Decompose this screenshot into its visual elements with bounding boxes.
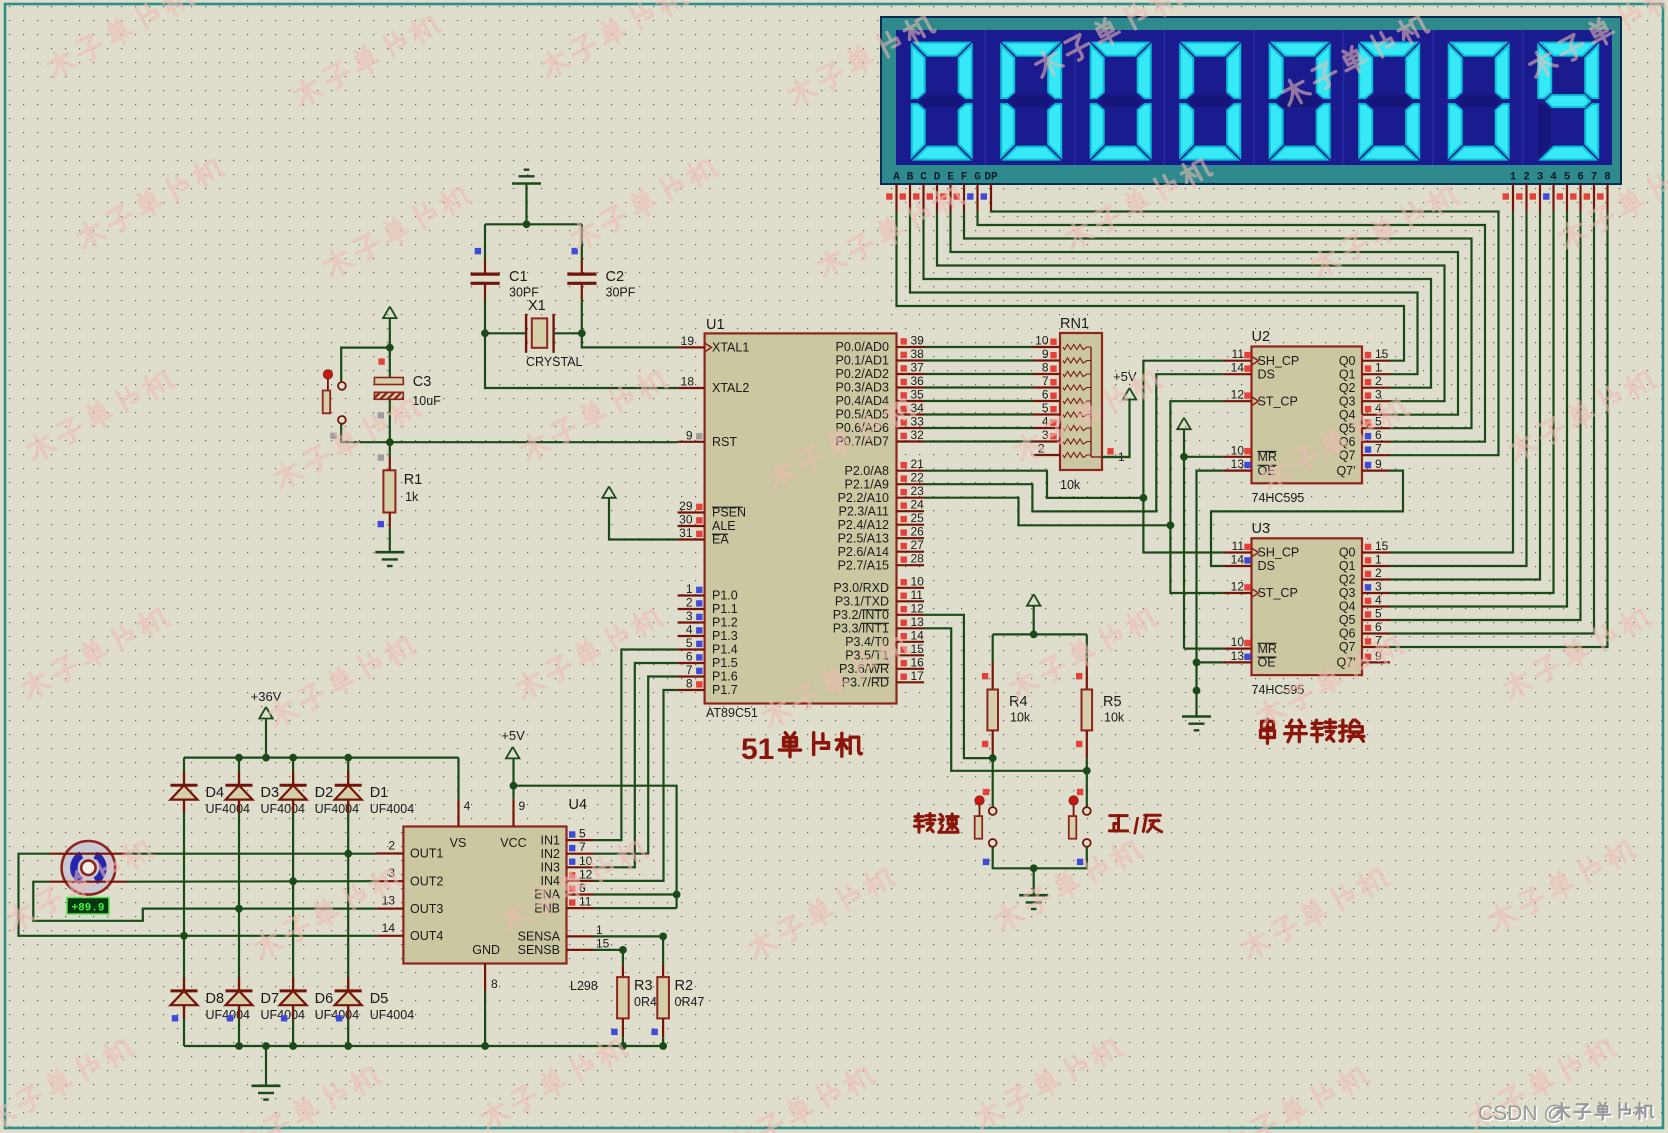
motor M1 [62, 841, 116, 895]
junction node on ground rail [235, 1042, 243, 1050]
svg-text:G: G [974, 172, 981, 184]
power +5V arrow at U2 MR [1177, 418, 1190, 430]
U1 pin 17 P3.7/RD [897, 681, 925, 683]
svg-text:P0.2/AD2: P0.2/AD2 [835, 367, 889, 381]
wire P0.7 to RN1 pin 3 [924, 440, 1033, 442]
svg-text:+5V: +5V [501, 728, 525, 743]
diode D2 UF4004 [292, 771, 294, 785]
svg-text:12: 12 [911, 601, 925, 615]
svg-text:27: 27 [911, 538, 925, 552]
svg-text:17: 17 [911, 669, 925, 683]
svg-text:36: 36 [911, 374, 925, 388]
svg-text:13: 13 [1231, 457, 1245, 471]
display digit 2 showing 0 [1004, 43, 1059, 56]
U1 pin 39 P0.0/AD0 [897, 346, 925, 348]
svg-text:ST_CP: ST_CP [1258, 586, 1298, 600]
svg-text:+89.9: +89.9 [71, 902, 104, 914]
RN1 pin 2 [1033, 454, 1060, 456]
svg-text:12: 12 [1231, 580, 1245, 594]
svg-text:5: 5 [1375, 415, 1382, 429]
svg-text:28: 28 [911, 552, 925, 566]
diode D4 UF4004 [183, 771, 185, 785]
resistor R2 0R47 [662, 964, 664, 977]
svg-text:15: 15 [1375, 347, 1389, 361]
power arrow at EA [602, 486, 615, 498]
svg-text:ALE: ALE [712, 519, 736, 533]
svg-text:A: A [893, 172, 900, 184]
wire segment F net [964, 211, 1472, 428]
U2 pin 2 Q2 [1362, 387, 1390, 389]
svg-text:7: 7 [1591, 172, 1598, 184]
diode D3 UF4004 [238, 771, 240, 785]
svg-text:3: 3 [1375, 388, 1382, 402]
svg-text:SENSA: SENSA [518, 930, 561, 944]
junction node on +36V rail [235, 754, 243, 762]
display segment pins A-DP with state squares [895, 184, 897, 211]
U1 INT0 INT1 WR RD overlines [861, 609, 889, 611]
wire SENSB to R3 [594, 950, 623, 964]
junction node MR net [1180, 453, 1188, 461]
wire X1 left to C1 [485, 332, 526, 334]
svg-text:P1.4: P1.4 [712, 643, 738, 657]
wire P2.0 to shift clock net [924, 471, 1143, 498]
wire SENSA to R2 [594, 936, 664, 964]
svg-text:11: 11 [1232, 347, 1245, 361]
svg-text:6: 6 [1375, 620, 1382, 634]
U4 pin 1 SENSA [567, 935, 594, 937]
ground main rail [252, 1085, 281, 1088]
display digit 5 showing 0 [1272, 43, 1327, 56]
svg-text:14: 14 [911, 628, 925, 642]
U4 pin 15 SENSB [567, 949, 594, 951]
svg-text:13: 13 [1231, 649, 1245, 663]
svg-text:C1: C1 [509, 269, 528, 285]
U4 pin 2 OUT1 [376, 852, 403, 854]
diode D6 UF4004 [292, 977, 294, 991]
svg-text:14: 14 [382, 921, 396, 935]
svg-text:5: 5 [1042, 401, 1049, 415]
U1 PSEN overline [712, 506, 743, 508]
svg-text:XTAL1: XTAL1 [712, 341, 749, 355]
svg-text:P0.4/AD4: P0.4/AD4 [835, 394, 889, 408]
svg-text:P1.0: P1.0 [712, 589, 738, 603]
svg-text:CSDN @: CSDN @ [1478, 1102, 1565, 1125]
wire digit 5 net [1390, 211, 1568, 607]
U2 pin 9 Q7' [1362, 470, 1390, 472]
junction node OE at U3 [1193, 659, 1201, 667]
junction node on +36V rail [289, 754, 297, 762]
U1 pin 6 P1.5 [678, 662, 705, 664]
label 转速 [914, 813, 935, 832]
svg-text:P2.0/A8: P2.0/A8 [845, 464, 890, 478]
svg-text:16: 16 [911, 655, 925, 669]
svg-text:23: 23 [911, 484, 925, 498]
svg-text:P0.1/AD1: P0.1/AD1 [835, 354, 889, 368]
U4 pin 5 IN1 [567, 839, 594, 841]
U1 pin 28 P2.7/A15 [897, 564, 925, 566]
U2 pin 6 Q6 [1362, 441, 1390, 443]
svg-text:15: 15 [596, 936, 610, 950]
wire P0.2 to RN1 pin 8 [924, 373, 1033, 375]
svg-text:5: 5 [1375, 607, 1382, 621]
svg-text:SH_CP: SH_CP [1258, 354, 1300, 368]
svg-text:D7: D7 [261, 991, 280, 1007]
U3 pin 5 Q5 [1362, 619, 1390, 621]
U4 pin 8 GND [484, 964, 486, 991]
resistor R4 [992, 634, 994, 662]
svg-text:D4: D4 [206, 785, 225, 801]
U1 pin 38 P0.1/AD1 [897, 359, 925, 361]
svg-text:P2.6/A14: P2.6/A14 [838, 545, 889, 559]
wire digit 7 net [1390, 211, 1595, 634]
svg-text:P0.0/AD0: P0.0/AD0 [835, 340, 889, 354]
wire motor top to OUT1 [127, 853, 376, 855]
label 串并转换 [1260, 719, 1274, 743]
U1 pin 34 P0.5/AD5 [897, 413, 925, 415]
diode D8 UF4004 [183, 977, 185, 991]
wire P1.7 to IN4 [594, 690, 678, 881]
svg-text:6: 6 [1577, 172, 1584, 184]
svg-text:X1: X1 [528, 298, 546, 314]
junction node cap ground rail [523, 220, 531, 228]
svg-text:Q7': Q7' [1336, 464, 1355, 478]
U1 pin 5 P1.4 [678, 648, 705, 650]
svg-text:4: 4 [686, 623, 693, 637]
push button RESET [341, 348, 390, 383]
svg-text:10: 10 [911, 574, 925, 588]
svg-text:4: 4 [464, 799, 471, 813]
U3 pin 2 Q2 [1362, 578, 1390, 580]
svg-text:IN2: IN2 [541, 847, 561, 861]
svg-text:11: 11 [911, 588, 924, 602]
U2 pin 13 OE [1224, 470, 1252, 472]
svg-text:8: 8 [686, 677, 693, 691]
U4 pin 4 VS [457, 799, 459, 826]
wire segment E net [951, 211, 1459, 415]
U2 pin 3 Q3 [1362, 400, 1390, 402]
svg-text:9: 9 [686, 428, 693, 442]
U4 pin 11 ENB [567, 907, 594, 909]
junction node XTAL1 side [578, 329, 586, 337]
svg-text:D6: D6 [315, 991, 334, 1007]
svg-text:C2: C2 [606, 269, 625, 285]
wire P0.4 to RN1 pin 6 [924, 400, 1033, 402]
wire +5V to RN1 pin 1 [1102, 400, 1130, 458]
svg-text:39: 39 [911, 334, 925, 348]
U3 pin 11 SH_CP [1224, 551, 1252, 553]
wire ST_CP net U2 to U3 [1170, 401, 1223, 593]
wire digit 8 net [1390, 211, 1608, 647]
wire P1.5 to IN3 [594, 663, 678, 867]
svg-text:8: 8 [491, 977, 498, 991]
wire EA pull up [609, 498, 678, 540]
power arrow above R4 R5 [1027, 594, 1040, 606]
svg-text:14: 14 [1231, 553, 1245, 567]
wire P0.1 to RN1 pin 9 [924, 359, 1033, 361]
svg-text:2: 2 [1375, 374, 1382, 388]
U1 pin 21 P2.0/A8 [897, 470, 925, 472]
U1 pin 35 P0.4/AD4 [897, 400, 925, 402]
svg-text:24: 24 [911, 498, 925, 512]
junction node XTAL2 side [481, 329, 489, 337]
svg-text:1: 1 [1375, 553, 1382, 567]
U3 pin 1 Q1 [1362, 565, 1390, 567]
U1 pin 24 P2.3/A11 [897, 510, 925, 512]
ground above crystal caps (inverted) [512, 182, 541, 185]
wire +36V rail [184, 756, 459, 758]
svg-text:21: 21 [911, 457, 925, 471]
svg-text:P3.0/RXD: P3.0/RXD [833, 581, 889, 595]
wire P2.1 to U2 DS [924, 374, 1224, 511]
svg-text:2: 2 [388, 839, 395, 853]
svg-text:6: 6 [1375, 428, 1382, 442]
wire P3.2 to R4 bottom [924, 615, 993, 758]
wire P0.3 to RN1 pin 7 [924, 386, 1033, 388]
svg-text:D1: D1 [370, 785, 389, 801]
svg-text:2: 2 [1523, 172, 1530, 184]
svg-text:10k: 10k [1104, 710, 1125, 724]
display digit 8 showing 9 [1541, 43, 1596, 56]
svg-text:15: 15 [911, 642, 925, 656]
svg-text:9: 9 [519, 799, 526, 813]
junction node RST [386, 438, 394, 446]
svg-text:P2.5/A13: P2.5/A13 [838, 531, 889, 545]
wire R4 R5 top rail [993, 633, 1087, 635]
svg-text:UF4004: UF4004 [261, 802, 306, 816]
RN1 pin 10 [1033, 346, 1060, 348]
svg-text:D3: D3 [261, 785, 280, 801]
U2 pin 10 MR [1224, 456, 1252, 458]
svg-text:33: 33 [911, 415, 925, 429]
wire P3.3 to R5 bottom [924, 628, 1087, 771]
svg-text:IN4: IN4 [541, 874, 561, 888]
wire digit 4 net [1390, 211, 1554, 593]
svg-text:8: 8 [1042, 361, 1049, 375]
svg-text:P1.6: P1.6 [712, 670, 738, 684]
svg-text:10: 10 [1035, 334, 1049, 348]
svg-text:OUT4: OUT4 [410, 929, 443, 943]
svg-text:13: 13 [911, 615, 925, 629]
wire segment C net [924, 211, 1432, 388]
svg-text:Q0: Q0 [1339, 546, 1356, 560]
RN1 internal common bus [1090, 347, 1092, 457]
svg-text:30: 30 [679, 513, 693, 527]
junction node on ground rail [289, 1042, 297, 1050]
svg-text:UF4004: UF4004 [206, 802, 251, 816]
wire buttons to ground [993, 847, 1087, 869]
svg-text:Q5: Q5 [1339, 613, 1356, 627]
junction node SENSB R3 [619, 946, 627, 954]
U1 pin 1 P1.0 [678, 594, 705, 596]
motor rpm readout +89.9 [67, 898, 109, 915]
display digit 3 showing 0 [1093, 43, 1148, 56]
U3 pin 9 Q7' [1362, 661, 1390, 663]
U1 pin 13 P3.3/INT1 [897, 627, 925, 629]
svg-text:22: 22 [911, 471, 925, 485]
svg-text:31: 31 [679, 526, 693, 540]
svg-text:10k: 10k [1060, 478, 1081, 492]
junction node on +36V rail [344, 754, 352, 762]
svg-text:7: 7 [579, 840, 586, 854]
svg-text:D: D [934, 172, 941, 184]
junction node R4 bottom [989, 754, 997, 762]
junction node C3 top [386, 344, 394, 352]
wire digit 3 net [1390, 211, 1541, 580]
svg-text:P3.1/TXD: P3.1/TXD [835, 595, 889, 609]
U1 pin 37 P0.2/AD2 [897, 373, 925, 375]
wire P1.4 to IN1 [594, 650, 678, 841]
RN1 pin 5 [1033, 413, 1060, 415]
U1 pin 16 P3.6/WR [897, 668, 925, 670]
svg-text:7: 7 [1042, 374, 1049, 388]
U1 pin 15 P3.5/T1 [897, 654, 925, 656]
svg-text:3: 3 [1537, 172, 1544, 184]
wire bottom ground rail [184, 1045, 663, 1047]
svg-text:P2.1/A9: P2.1/A9 [845, 477, 890, 491]
svg-text:37: 37 [911, 361, 925, 375]
display cell separators [985, 30, 987, 165]
svg-text:10: 10 [1231, 443, 1245, 457]
wire U4 GND pin to rail [484, 991, 486, 1047]
junction node R5 bottom [1083, 767, 1091, 775]
wire button bottom to RST net [341, 424, 390, 442]
U1 pin 12 P3.2/INT0 [897, 614, 925, 616]
power arrow above C3 [383, 307, 396, 319]
svg-text:14: 14 [1231, 361, 1245, 375]
svg-text:3: 3 [1375, 580, 1382, 594]
svg-text:18: 18 [681, 375, 695, 389]
wire P0.6 to RN1 pin 4 [924, 427, 1033, 429]
svg-text:2: 2 [1375, 566, 1382, 580]
svg-text:GND: GND [472, 943, 500, 957]
wire digit 1 net [1390, 211, 1514, 553]
svg-text:12: 12 [579, 867, 593, 881]
U1 pin 22 P2.1/A9 [897, 483, 925, 485]
svg-text:U2: U2 [1252, 329, 1271, 345]
svg-text:5: 5 [686, 636, 693, 650]
svg-text:3: 3 [1042, 428, 1049, 442]
label 正/反 [1109, 816, 1127, 831]
wire digit 2 net [1390, 211, 1527, 566]
svg-text:B: B [907, 172, 914, 184]
ground below R1 [375, 551, 404, 554]
U1 pin 7 P1.6 [678, 675, 705, 677]
svg-text:/: / [1133, 813, 1140, 839]
junction node SENSA R2 [659, 933, 667, 941]
U4 pin 13 OUT3 [376, 907, 403, 909]
svg-text:Q1: Q1 [1339, 367, 1356, 381]
U1 AT89C51 body [705, 333, 897, 703]
U3 pin 3 Q3 [1362, 592, 1390, 594]
svg-text:IN3: IN3 [541, 861, 561, 875]
U4 pin 3 OUT2 [376, 880, 403, 882]
display digit 6 showing 0 [1362, 43, 1417, 56]
wire segment B net [910, 211, 1418, 374]
U4 L298 body [403, 827, 566, 964]
svg-text:AT89C51: AT89C51 [706, 706, 758, 720]
display digit pins 1-8 with state squares [1512, 184, 1514, 211]
svg-text:UF4004: UF4004 [370, 1008, 415, 1022]
U2 pin 7 Q7 [1362, 454, 1390, 456]
svg-text:8: 8 [1604, 172, 1611, 184]
svg-text:Q3: Q3 [1339, 586, 1356, 600]
RN1 pin 8 [1033, 373, 1060, 375]
svg-text:D8: D8 [206, 991, 225, 1007]
svg-text:OUT1: OUT1 [410, 847, 443, 861]
capacitor C2 [581, 224, 583, 259]
svg-text:CRYSTAL: CRYSTAL [526, 355, 583, 369]
display DS1 8-digit 7-segment block [881, 17, 1621, 184]
svg-text:P1.3: P1.3 [712, 629, 738, 643]
svg-text:P2.2/A10: P2.2/A10 [838, 491, 889, 505]
resistor R5 [1086, 634, 1088, 662]
svg-text:30PF: 30PF [606, 286, 636, 300]
svg-text:L298: L298 [570, 979, 598, 993]
wire P0.0 to RN1 pin 10 [924, 346, 1033, 348]
svg-text:UF4004: UF4004 [315, 802, 360, 816]
svg-text:SENSB: SENSB [518, 943, 560, 957]
svg-text:Q7: Q7 [1339, 640, 1356, 654]
ground below buttons [1019, 894, 1048, 897]
U4 pin 7 IN2 [567, 853, 594, 855]
svg-text:29: 29 [679, 499, 693, 513]
diode D5 UF4004 [347, 977, 349, 991]
svg-text:U4: U4 [569, 797, 588, 813]
wire to XTAL1 pin 19 [582, 333, 678, 347]
svg-text:10: 10 [1231, 635, 1245, 649]
U1 pin 3 P1.2 [678, 621, 705, 623]
wire GND stem [265, 1046, 267, 1086]
display digit 7 showing 0 [1451, 43, 1506, 56]
U1 pin 26 P2.5/A13 [897, 537, 925, 539]
svg-text:7: 7 [686, 663, 693, 677]
U2 pin 11 SH_CP [1224, 360, 1252, 362]
junction node OE stem [1193, 687, 1201, 695]
svg-text:UF4004: UF4004 [370, 802, 415, 816]
svg-text:1k: 1k [405, 490, 419, 504]
svg-text:U1: U1 [706, 317, 725, 333]
resistor R1 [378, 454, 384, 460]
svg-text:74HC595: 74HC595 [1252, 491, 1305, 505]
U2 pin 5 Q5 [1362, 427, 1390, 429]
svg-text:0R47: 0R47 [675, 995, 705, 1009]
svg-text:C3: C3 [413, 374, 432, 390]
U1 pin 19 XTAL1 [678, 346, 705, 348]
wire ENA [594, 893, 677, 895]
svg-text:19: 19 [681, 334, 695, 348]
U3 pin 6 Q6 [1362, 632, 1390, 634]
capacitor C1 [484, 224, 486, 259]
push button [975, 796, 984, 805]
svg-text:DS: DS [1258, 559, 1275, 573]
wire OE net U2 U3 to ground [1197, 471, 1224, 717]
wire R4 to button [992, 758, 994, 807]
U1 EA overline [712, 533, 728, 535]
svg-text:9: 9 [1042, 347, 1049, 361]
U1 pin 9 RST [678, 441, 705, 443]
U4 pin 6 ENA [567, 893, 594, 895]
svg-text:35: 35 [911, 388, 925, 402]
svg-text:P2.4/A12: P2.4/A12 [838, 518, 889, 532]
junction node on ground rail [659, 1042, 667, 1050]
svg-text:Q4: Q4 [1339, 600, 1356, 614]
svg-text:10uF: 10uF [412, 394, 441, 408]
svg-text:D5: D5 [370, 991, 389, 1007]
motor pin lines [50, 853, 127, 855]
svg-text:P2.7/A15: P2.7/A15 [838, 558, 889, 572]
svg-text:38: 38 [911, 347, 925, 361]
wire RST to U1 pin 9 [390, 441, 678, 443]
